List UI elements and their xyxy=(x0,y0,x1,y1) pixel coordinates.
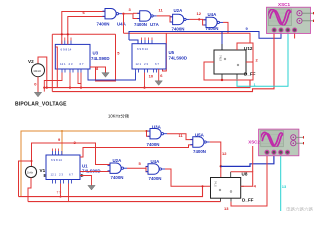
wire gate4 input B xyxy=(203,20,206,25)
wire blue U12 clock drop xyxy=(221,32,223,51)
svg-text:13: 13 xyxy=(224,206,229,211)
wire U1 right to gate6 xyxy=(80,171,110,173)
wire U3 pin loop left xyxy=(44,73,62,92)
svg-text:XSC2: XSC2 xyxy=(248,140,260,145)
svg-text:U4A: U4A xyxy=(208,12,218,17)
svg-text:74LS90D: 74LS90D xyxy=(91,56,110,61)
wire net5 right riser xyxy=(90,34,116,81)
svg-text:BIPOLAR_VOLTAGE: BIPOLAR_VOLTAGE xyxy=(15,102,67,108)
wire U3 pin loop right drop xyxy=(80,84,82,88)
wire net6 gate1 input A riser xyxy=(62,12,105,45)
svg-text:10kHz: 10kHz xyxy=(33,69,42,73)
wire gate7 out to U8 xyxy=(165,169,211,186)
svg-text:6 7: 6 7 xyxy=(69,173,73,177)
wire V1 net3 riser xyxy=(32,143,111,167)
wire XSC2 T3 cyan xyxy=(280,155,282,212)
svg-text:U2A: U2A xyxy=(113,158,123,163)
D flip-flop U8 xyxy=(211,172,245,202)
svg-text:13: 13 xyxy=(282,184,287,189)
wire U3 left pin riser xyxy=(55,47,57,88)
nand gate U2B xyxy=(108,163,128,173)
node junction gate1 out xyxy=(122,13,124,15)
svg-text:7400N: 7400N xyxy=(193,149,206,154)
node junction rail1 c xyxy=(80,87,82,89)
nand gate U5A xyxy=(190,137,210,147)
wire orange drop to U1 xyxy=(61,131,63,155)
svg-text:U7A: U7A xyxy=(150,22,160,27)
wire gate4 out riser xyxy=(223,22,228,33)
svg-text:U3A: U3A xyxy=(152,125,162,130)
node junction orange xyxy=(61,130,63,132)
svg-text:XSC1: XSC1 xyxy=(278,2,290,7)
node junction rail1 d xyxy=(143,87,145,89)
wire gate2 out to gate3 xyxy=(157,15,173,18)
svg-text:10KHz分频: 10KHz分频 xyxy=(108,112,130,119)
wire gate5 input B drop xyxy=(147,131,151,136)
IC U5 74LS90D xyxy=(132,38,166,73)
wire gate6 out to gate7 xyxy=(127,167,148,169)
node junction V1 left branch xyxy=(31,160,33,162)
svg-text:U5A: U5A xyxy=(195,132,205,137)
wire gate7 input B xyxy=(146,168,148,172)
wire orange net lower xyxy=(21,131,150,197)
svg-text:7400N: 7400N xyxy=(172,27,185,32)
wire rail lower y196 xyxy=(19,186,203,196)
node junction net5 b xyxy=(67,33,69,35)
voltage source V1 xyxy=(25,166,36,177)
voltage source V2 xyxy=(32,64,45,77)
svg-text:U5: U5 xyxy=(169,50,175,55)
nand gate U4A xyxy=(103,9,123,19)
node junction rail1 b xyxy=(69,87,71,89)
svg-text:6 7: 6 7 xyxy=(155,62,159,66)
nand gate U2A xyxy=(170,14,190,24)
wire U1 bottom drop a xyxy=(60,184,62,197)
wire net1 V2 top riser xyxy=(38,57,47,88)
ground mid left xyxy=(102,73,109,78)
wire gnd2 stem xyxy=(96,67,106,73)
wire U5 pin drop xyxy=(144,73,146,88)
D flip-flop U12 xyxy=(209,44,250,80)
nand gate U3A xyxy=(148,129,168,139)
svg-text:电路六路六路: 电路六路六路 xyxy=(286,206,313,211)
svg-text:74LS: 74LS xyxy=(214,181,217,187)
svg-text:U4A: U4A xyxy=(117,22,127,27)
wire V2 bottom stem xyxy=(37,77,39,93)
svg-text:12 1: 12 1 xyxy=(136,62,142,66)
svg-text:U12: U12 xyxy=(244,46,253,51)
node junction gate5 xyxy=(146,130,148,132)
node junction gate3 out xyxy=(198,18,200,20)
wire net3 gate1out to gate2 xyxy=(122,14,140,19)
svg-text:2 3: 2 3 xyxy=(144,62,148,66)
svg-text:D_FF: D_FF xyxy=(242,198,254,203)
wire U8 feedback loop xyxy=(231,172,253,187)
node junction U12 bottom xyxy=(221,79,223,81)
wire U5 gnd stem xyxy=(158,69,160,81)
wire blue rail net9 xyxy=(129,32,281,41)
wire net5 top horizontal xyxy=(52,33,115,35)
wire net3 branch U5 right xyxy=(163,33,167,71)
wire V1 left loop xyxy=(19,161,32,197)
svg-text:12: 12 xyxy=(222,151,227,156)
svg-text:V2: V2 xyxy=(28,59,34,64)
wire U1 net rail y147 xyxy=(80,145,193,157)
node junction net12 blue crossing xyxy=(220,165,222,167)
svg-text:12 1: 12 1 xyxy=(51,173,57,177)
wire XSC1 T4 stub xyxy=(294,34,296,39)
wire gate8 out to U8 top xyxy=(210,142,221,178)
wire rail1 red xyxy=(44,80,250,88)
wire blue net lower xyxy=(221,155,274,167)
wire net5 left riser xyxy=(51,34,53,91)
svg-text:U2A: U2A xyxy=(174,8,184,13)
wire U12 feedback loop xyxy=(204,43,253,80)
oscilloscope XSC2 xyxy=(259,129,304,156)
wire blue rail U5 stub xyxy=(129,40,138,44)
wire U12 right pin net2 xyxy=(246,61,253,63)
nand gate U4B xyxy=(204,17,224,27)
wire U1 bottom drop b xyxy=(68,184,70,202)
node junction U8 left xyxy=(202,185,204,187)
svg-text:U4A: U4A xyxy=(151,159,161,164)
wire XSC2 T1 path net13 xyxy=(231,155,267,207)
svg-text:6 9 8 14: 6 9 8 14 xyxy=(51,158,62,162)
svg-text:1kHz: 1kHz xyxy=(27,171,34,175)
wire gnd4 stem xyxy=(80,176,92,186)
ground lower xyxy=(88,185,95,190)
svg-text:7400N: 7400N xyxy=(147,142,160,147)
svg-text:74LS: 74LS xyxy=(219,55,223,61)
oscilloscope XSC1 xyxy=(267,7,314,33)
nand gate U4C xyxy=(146,164,166,174)
wire gate3 out to gate4 xyxy=(190,18,206,20)
svg-text:12 1: 12 1 xyxy=(60,62,66,66)
wire V1 bottom xyxy=(28,178,31,202)
svg-text:7400N: 7400N xyxy=(206,26,219,31)
wire net3 gate2 input A xyxy=(133,12,140,14)
svg-text:7400N: 7400N xyxy=(134,22,147,27)
wire U3 pin drop mid xyxy=(69,73,71,88)
svg-text:7400N: 7400N xyxy=(97,22,110,27)
wire cyan net1 xyxy=(237,34,288,87)
svg-text:6 9 8 14: 6 9 8 14 xyxy=(61,47,72,51)
wire net3 rail top xyxy=(124,33,251,43)
wire gate5 out to gate8 xyxy=(167,134,193,140)
svg-text:12: 12 xyxy=(197,11,202,16)
wire blue link U3 to U5 xyxy=(88,69,136,80)
node junction net5 a xyxy=(61,33,63,35)
svg-text:2 3: 2 3 xyxy=(69,62,73,66)
wire rail2 red xyxy=(52,34,274,92)
svg-text:7400N: 7400N xyxy=(149,176,162,181)
wire U3 pin loop right xyxy=(78,73,81,84)
svg-text:74LS90D: 74LS90D xyxy=(169,55,188,60)
IC U3 74LS90D xyxy=(55,38,90,73)
wire rail lower y201 xyxy=(28,201,221,203)
wire net6 gate1 input B riser xyxy=(68,17,105,45)
ground under V2 xyxy=(34,92,41,97)
svg-text:7400N: 7400N xyxy=(111,175,124,180)
svg-text:10: 10 xyxy=(149,74,154,79)
IC U1 74LS90D xyxy=(46,149,80,184)
node junction rail1 a xyxy=(43,87,45,89)
ground mid right xyxy=(155,81,162,86)
nand gate U7A xyxy=(137,11,157,21)
svg-text:6 7: 6 7 xyxy=(80,62,84,66)
wire net3 down riser xyxy=(123,14,125,34)
svg-text:U3: U3 xyxy=(93,51,99,56)
svg-text:6 9 8 14: 6 9 8 14 xyxy=(137,47,148,51)
svg-text:D_FF: D_FF xyxy=(244,72,256,77)
svg-text:2 3: 2 3 xyxy=(59,173,63,177)
wire U8 riser upper xyxy=(252,146,254,172)
node junction V2 rail xyxy=(46,87,48,89)
wire gate3 input B xyxy=(170,17,173,22)
node junction lower rail a xyxy=(60,196,62,198)
